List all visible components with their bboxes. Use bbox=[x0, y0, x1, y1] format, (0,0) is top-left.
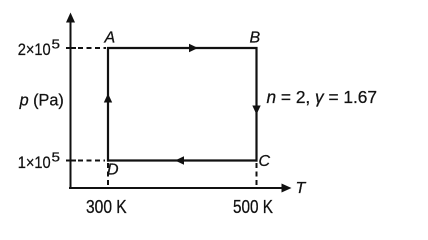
svg-text:B: B bbox=[250, 30, 261, 47]
svg-text:n = 2, γ = 1.67: n = 2, γ = 1.67 bbox=[267, 87, 378, 107]
svg-text:D: D bbox=[107, 162, 119, 179]
svg-text:p (Pa): p (Pa) bbox=[19, 92, 64, 110]
svg-text:T: T bbox=[296, 180, 307, 197]
svg-text:5: 5 bbox=[52, 38, 61, 52]
svg-text:A: A bbox=[104, 30, 116, 47]
svg-text:2×10: 2×10 bbox=[18, 41, 51, 59]
svg-text:5: 5 bbox=[52, 151, 61, 165]
svg-text:1×10: 1×10 bbox=[18, 154, 51, 172]
svg-text:500 K: 500 K bbox=[233, 197, 273, 217]
svg-text:300 K: 300 K bbox=[86, 197, 127, 217]
svg-text:C: C bbox=[259, 153, 271, 170]
